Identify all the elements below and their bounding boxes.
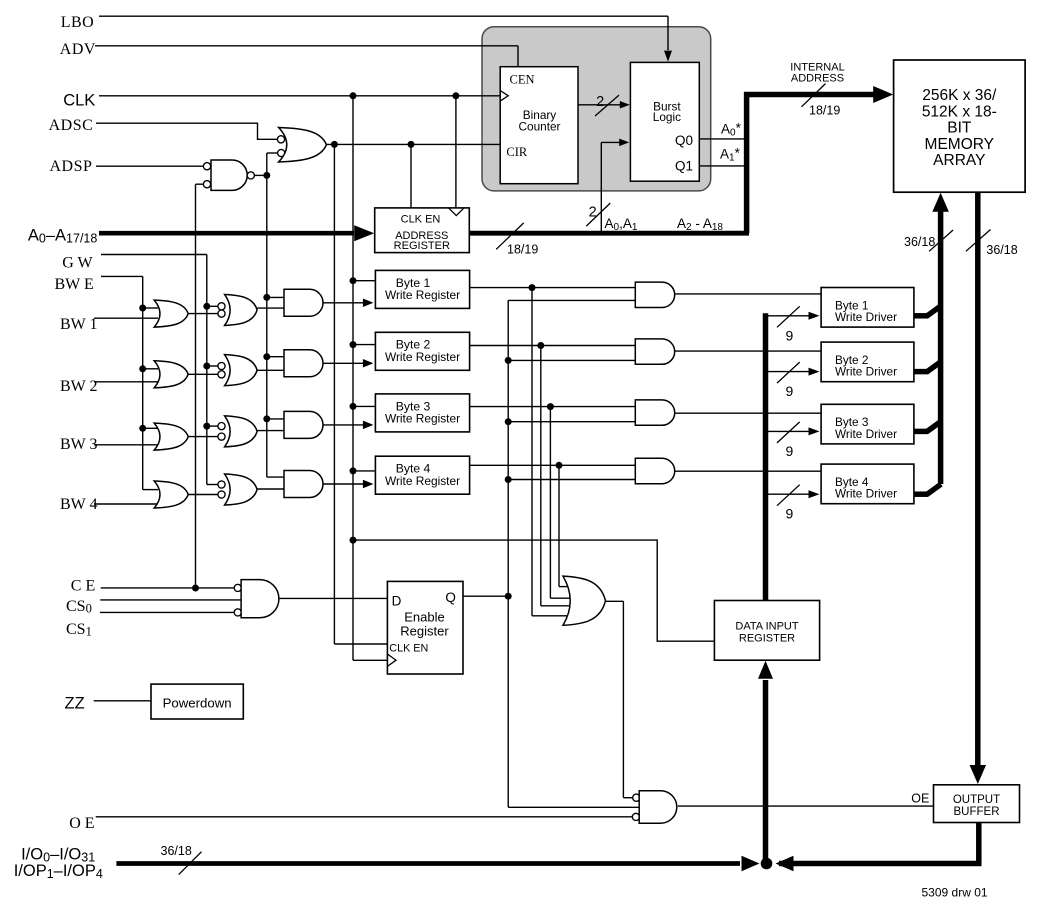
svg-text:I/OP1–I/OP4: I/OP1–I/OP4 [14, 862, 103, 881]
svg-text:BIT: BIT [947, 120, 972, 137]
svg-text:Q1: Q1 [675, 159, 693, 174]
svg-text:BW 2: BW 2 [60, 378, 97, 395]
svg-text:Write Driver: Write Driver [835, 310, 897, 324]
svg-text:Enable: Enable [404, 610, 444, 625]
svg-text:CEN: CEN [510, 73, 535, 87]
svg-text:REGISTER: REGISTER [739, 633, 795, 645]
svg-text:BW 1: BW 1 [60, 316, 97, 333]
svg-text:BW 4: BW 4 [60, 496, 97, 513]
svg-text:ZZ: ZZ [65, 695, 85, 713]
svg-text:18/19: 18/19 [809, 104, 840, 118]
svg-text:BUFFER: BUFFER [954, 806, 1000, 818]
svg-text:CLK EN: CLK EN [389, 643, 428, 655]
svg-text:OUTPUT: OUTPUT [953, 794, 1000, 806]
svg-text:9: 9 [786, 506, 794, 522]
svg-text:REGISTER: REGISTER [394, 240, 450, 252]
svg-text:36/18: 36/18 [986, 243, 1017, 257]
svg-text:Write Register: Write Register [385, 350, 460, 364]
svg-text:D: D [392, 594, 402, 609]
svg-text:G W: G W [62, 255, 93, 272]
svg-text:CLK: CLK [63, 92, 95, 110]
svg-text:Powerdown: Powerdown [163, 696, 232, 711]
svg-text:18/19: 18/19 [507, 243, 538, 257]
svg-text:5309 drw 01: 5309 drw 01 [922, 886, 988, 900]
svg-text:36/18: 36/18 [161, 844, 192, 858]
svg-text:36/18: 36/18 [904, 235, 935, 249]
svg-text:Q: Q [445, 590, 456, 605]
svg-text:9: 9 [786, 327, 794, 343]
svg-text:Write Driver: Write Driver [835, 427, 897, 441]
svg-text:BW E: BW E [55, 276, 94, 293]
svg-text:ADV: ADV [60, 41, 96, 58]
svg-text:CIR: CIR [506, 145, 528, 159]
svg-text:BW 3: BW 3 [60, 436, 97, 453]
svg-text:LBO: LBO [61, 14, 94, 31]
svg-text:Write Driver: Write Driver [835, 365, 897, 379]
svg-text:O E: O E [69, 815, 94, 832]
svg-text:ADSP: ADSP [50, 158, 93, 175]
svg-text:256K x 36/: 256K x 36/ [922, 87, 997, 104]
svg-text:ADSC: ADSC [49, 117, 94, 134]
svg-text:DATA INPUT: DATA INPUT [735, 621, 798, 633]
svg-text:Write Driver: Write Driver [835, 487, 897, 501]
svg-text:Write Register: Write Register [385, 412, 460, 426]
svg-text:9: 9 [786, 443, 794, 459]
svg-text:512K x 18-: 512K x 18- [922, 103, 997, 120]
svg-text:Logic: Logic [653, 110, 681, 124]
svg-text:CS0: CS0 [66, 598, 92, 616]
svg-text:CS1: CS1 [66, 621, 92, 639]
svg-text:Counter: Counter [519, 120, 561, 134]
svg-text:Write Register: Write Register [385, 288, 460, 302]
svg-text:CLK EN: CLK EN [401, 214, 441, 226]
svg-text:Q0: Q0 [675, 133, 693, 148]
svg-text:2: 2 [589, 205, 597, 221]
svg-text:2: 2 [596, 94, 604, 110]
svg-text:OE: OE [911, 792, 929, 806]
svg-text:C E: C E [71, 577, 95, 594]
svg-text:9: 9 [786, 383, 794, 399]
svg-text:ADDRESS: ADDRESS [791, 73, 844, 85]
svg-text:Write Register: Write Register [385, 474, 460, 488]
svg-text:ARRAY: ARRAY [933, 152, 985, 169]
svg-text:Register: Register [400, 624, 449, 639]
svg-text:MEMORY: MEMORY [925, 136, 994, 153]
